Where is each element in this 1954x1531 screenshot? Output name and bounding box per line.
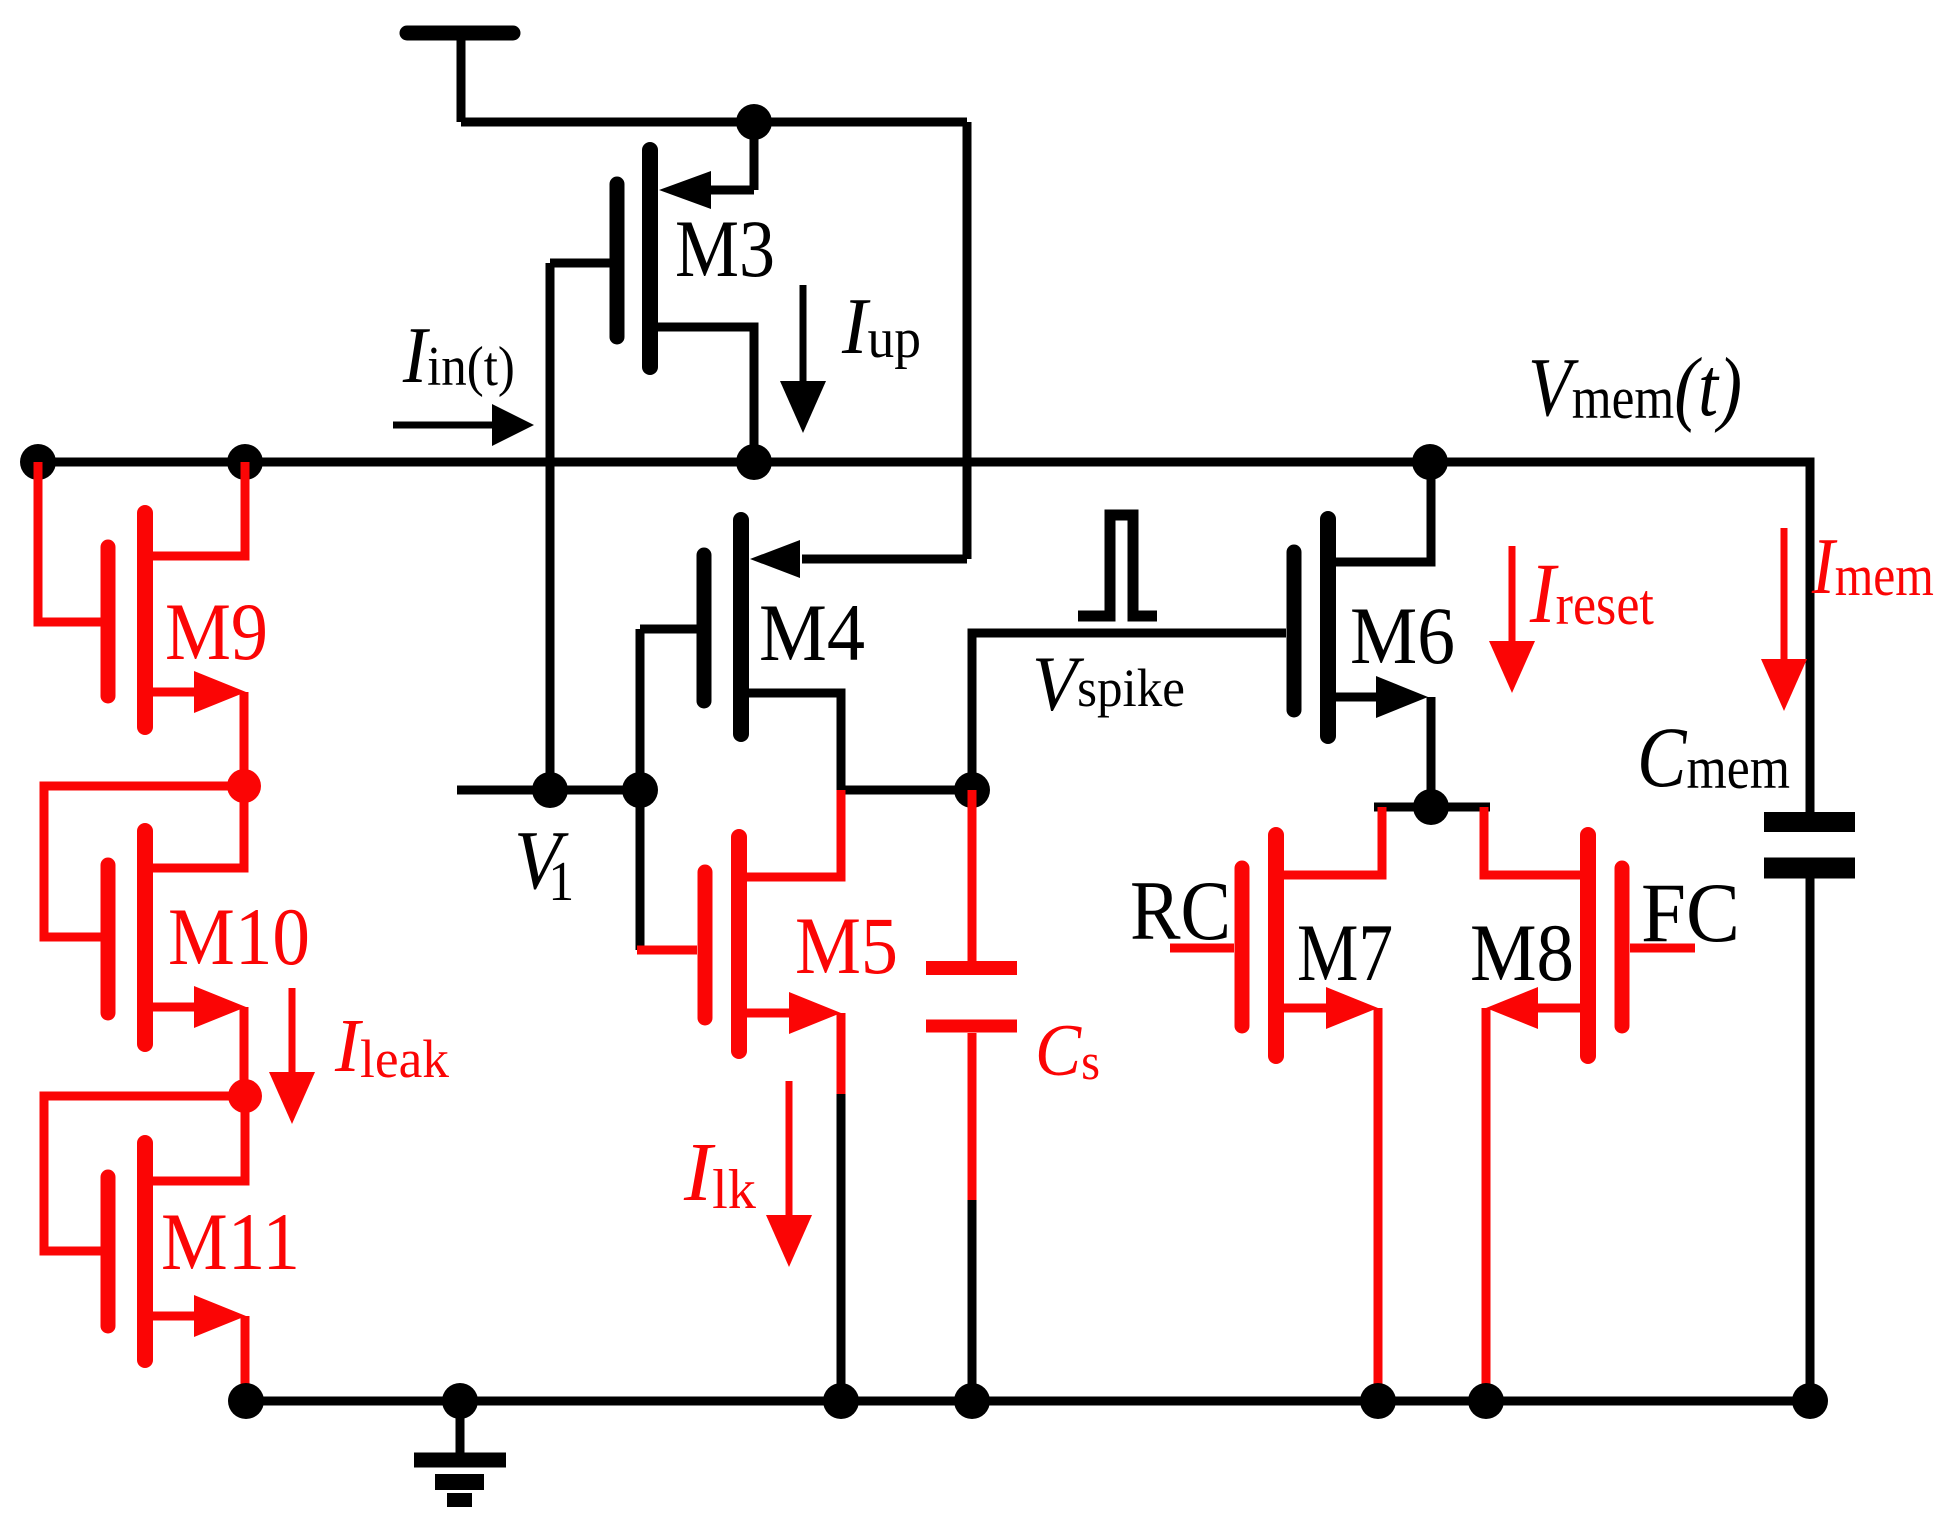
svg-text:M4: M4 [759,587,865,678]
label Iin(t) [402,311,515,400]
M6 channel bar [1320,519,1336,736]
node M6 source / M7 M8 drains [1413,789,1449,825]
node M11 source on ground rail [228,1383,264,1419]
transistor M5 [637,790,841,1094]
M3 source lead [658,327,754,462]
label Cmem [1637,710,1790,805]
transistor M11 [44,1096,246,1401]
M8 source arrow [1486,987,1538,1029]
Cs top wire [968,790,977,961]
M8 channel bar [1580,835,1596,1056]
M8 gate bar [1615,868,1630,1026]
capacitor Cmem [1764,822,1855,1401]
node M9 drain on rail [227,444,263,480]
node Cs top / M6 gate [954,772,990,808]
wire Vmem rail [38,462,1810,812]
wire Cs bottom to ground rail [968,1200,977,1401]
current arrow Iup [780,285,826,433]
node at M3 drain / top wire [736,104,772,140]
M4 gate lead [640,625,697,634]
M9 source lead [153,688,198,697]
Cmem top plate [1764,812,1855,832]
M9 drain lead [153,462,245,556]
Cs bottom wire [968,1033,977,1200]
M8 source wire [1482,1008,1491,1401]
M9 gate wire loop [38,462,101,622]
M10 source arrow [194,986,246,1028]
M9 channel bar [137,513,153,727]
M7 source wire [1374,1008,1383,1401]
label Cs [1035,1010,1100,1092]
node Cmem bottom on ground rail [1792,1383,1828,1419]
Vspike pulse symbol [1078,515,1157,616]
VDD bar [407,26,513,41]
ground stem wire [456,1401,465,1453]
Ireset arrow shaft [1509,546,1516,641]
M9 source arrow [194,671,246,713]
M4 drain arrow [750,540,800,578]
M3 gate lead [550,259,610,268]
wire top bus down to M4 gate-side lead [963,122,972,559]
node M6 drain on rail [1412,444,1448,480]
Ilk arrow shaft [786,1081,793,1215]
wire V1 stub [457,786,640,795]
Ileak arrow shaft [289,988,296,1072]
ground bar 1 [414,1453,506,1468]
svg-text:M8: M8 [1470,907,1574,998]
M8 source lead [1534,1004,1580,1013]
M5 source arrow [789,992,841,1034]
capacitor Cs [926,790,1017,1200]
wire M4 gate / M5 gate vertical from V1 [636,629,645,950]
Imem arrow head [1761,659,1807,711]
M11 source wire [241,1316,250,1401]
M5 gate bar [698,872,713,1018]
VDD stem wire [457,33,466,122]
M3 drain lead [706,186,754,195]
M11 gate wire loop [44,1096,245,1251]
wire Cs node up to M6 gate lead [972,633,1286,790]
svg-text:RC: RC [1130,864,1231,958]
transistor M7 [1170,807,1382,1401]
M5 drain lead [747,790,841,877]
Iin arrow shaft [393,422,496,429]
M11 gate bar [101,1177,116,1326]
current arrow Ileak [269,988,315,1124]
M6 drain lead [1336,462,1431,562]
Ileak arrow head [269,1072,315,1124]
svg-text:M7: M7 [1297,907,1393,998]
label Ireset [1529,545,1654,641]
M3 gate bar [610,184,625,337]
wire ground rail [246,1397,1810,1406]
Ireset arrow head [1489,641,1535,693]
M7 source arrow [1326,987,1378,1029]
M5 source wire [837,1013,846,1094]
node M9 source / M10 drain [227,769,261,803]
transistor M8 [1484,807,1695,1401]
node M7 source on ground rail [1360,1383,1396,1419]
M5 gate lead [637,946,697,955]
M10 drain lead [153,786,244,868]
M11 source lead [153,1312,198,1321]
label Vspike [1032,641,1185,727]
M4 drain lead [802,555,967,564]
current arrow Imem [1761,528,1807,711]
label Vmem(t) [1528,340,1742,434]
Iup arrow head [780,381,826,433]
svg-text:M9: M9 [165,586,268,677]
M5 source lead [747,1009,793,1018]
Cmem bottom plate [1764,858,1855,879]
transistor M4 [640,520,967,790]
svg-text:M10: M10 [168,891,310,982]
M10 channel bar [137,831,153,1044]
M10 gate bar [101,865,116,1013]
transistor M9 [38,462,246,786]
Cs top plate [926,961,1017,975]
wire node stubs to M7/M8 drains [1374,803,1490,812]
M11 drain lead [153,1096,245,1181]
M4 source lead [749,693,841,790]
wire M3 gate to V1 node [546,263,555,790]
M11 source arrow [194,1295,246,1337]
M7 channel bar [1268,835,1284,1056]
current arrow Iin [393,404,534,446]
label Ileak [334,1005,449,1089]
M4 gate bar [697,555,712,701]
Ilk arrow head [766,1215,812,1267]
node rail left end [20,444,56,480]
Iin arrow head [492,404,534,446]
Cs bottom plate [926,1020,1017,1033]
M11 channel bar [137,1143,153,1360]
M4 channel bar [733,520,749,734]
node M5 source on ground rail [823,1383,859,1419]
transistor M10 [44,786,246,1096]
M10 gate wire loop [44,786,244,937]
M7 gate bar [1235,868,1250,1026]
wire M4 source to Cs node [841,786,972,795]
M3 drain wire [750,122,759,190]
transistor M3 [550,122,754,462]
M8 drain lead [1484,807,1580,875]
svg-text:FC: FC [1641,866,1740,960]
label Ilk [683,1126,757,1221]
Cmem bottom wire [1806,878,1815,1401]
node Cs bottom on ground rail [954,1383,990,1419]
current arrow Ilk [766,1081,812,1267]
M6 source arrow [1376,676,1428,718]
M3 drain arrow [659,171,711,209]
M6 gate bar [1287,552,1302,710]
svg-text:M3: M3 [675,203,775,294]
M9 gate bar [101,547,116,696]
node V1 / M4-M5 gate [622,772,658,808]
wire VDD to M3 drain bus [461,118,967,127]
label V1 [514,814,574,912]
label Imem [1811,523,1934,611]
ground bar 2 [435,1474,484,1490]
ground bar 3 [447,1493,472,1507]
label Iup [841,281,921,370]
M7 gate lead RC [1170,944,1234,953]
svg-text:M5: M5 [795,900,898,991]
transistor M6 [1294,462,1431,807]
M5 channel bar [731,837,747,1051]
node V1 / M3 gate [532,772,568,808]
M6 source wire [1427,697,1436,807]
M6 source lead [1336,693,1380,702]
node M3 source on Vmem rail [736,444,772,480]
M3 channel bar [642,150,658,367]
M10 source lead [153,1003,198,1012]
power supply VDD symbol [407,33,513,122]
ground symbol [414,1401,506,1500]
node M8 source on ground rail [1468,1383,1504,1419]
node M10 source / M11 drain [228,1079,262,1113]
M7 source lead [1284,1004,1330,1013]
M10 source wire [240,1007,249,1096]
M9 source wire [240,692,249,786]
Iup arrow shaft [800,285,807,385]
node ground symbol tap [442,1383,478,1419]
M7 drain lead [1284,807,1382,875]
svg-text:M11: M11 [161,1196,300,1287]
Imem arrow shaft [1781,528,1788,659]
wire M5 source to ground rail [837,1094,846,1401]
current arrow Ireset [1489,546,1535,693]
M8 gate lead FC [1630,944,1695,953]
svg-text:M6: M6 [1350,590,1455,681]
